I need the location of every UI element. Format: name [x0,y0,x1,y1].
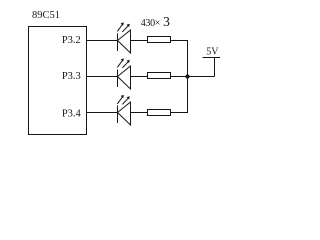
wire R3 to bus with corner [171,77,188,113]
svg-text:5V: 5V [206,47,219,58]
wire LED3 to R3 [131,112,148,114]
power rail bar [203,57,221,59]
wire R1 to bus with corner [171,41,188,77]
wire P3.2 to LED1 [87,40,118,42]
IC 89C51 box U1 [29,27,87,135]
wire P3.3 to LED2 [87,76,118,78]
svg-text:P3.4: P3.4 [62,109,82,120]
resistor R3 [148,110,171,116]
svg-text:P3.3: P3.3 [62,71,81,82]
LED D3 [117,95,130,125]
junction node [185,74,189,78]
resistor R1 [148,37,171,43]
resistor R2 [148,73,171,79]
LED D2 [117,58,130,89]
svg-text:89C51: 89C51 [32,10,60,21]
LED D1 [117,22,130,53]
wire P3.4 to LED3 [87,112,118,114]
wire R2 to 5V stub [171,76,215,78]
wire LED1 to R1 [131,40,148,42]
wire LED2 to R2 [131,76,148,78]
svg-text:430×3: 430×3 [141,14,170,29]
wire 5V bar down to branch [214,58,216,77]
svg-text:P3.2: P3.2 [62,35,81,46]
